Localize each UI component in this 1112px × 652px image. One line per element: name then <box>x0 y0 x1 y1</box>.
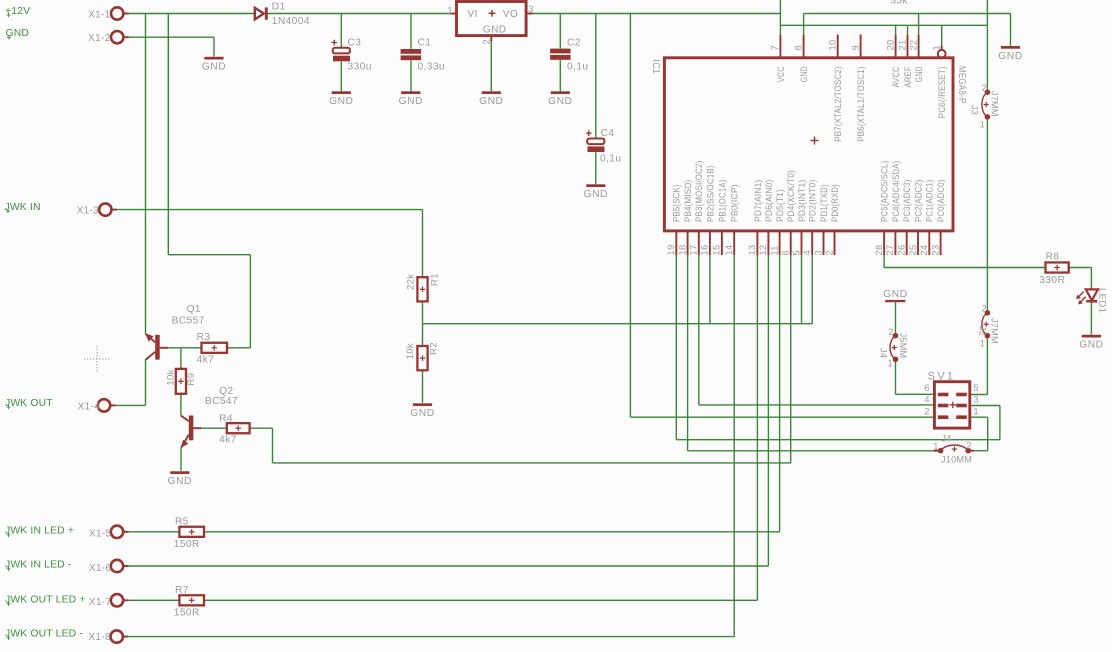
svg-text:PD0(RXD): PD0(RXD) <box>830 184 840 222</box>
svg-text:J10MM: J10MM <box>941 454 972 464</box>
svg-text:GND: GND <box>998 51 1022 62</box>
svg-text:SV1: SV1 <box>928 370 956 382</box>
svg-text:19: 19 <box>666 245 676 256</box>
svg-text:12: 12 <box>758 245 768 256</box>
svg-text:2: 2 <box>966 441 971 451</box>
svg-text:PB7(XTAL2/TOSC2): PB7(XTAL2/TOSC2) <box>833 66 843 142</box>
svg-text:2: 2 <box>982 303 987 313</box>
svg-text:PC0(ADC0): PC0(ADC0) <box>936 180 946 223</box>
svg-text:27: 27 <box>885 245 895 256</box>
svg-text:GND: GND <box>410 408 434 419</box>
svg-text:14: 14 <box>724 245 734 256</box>
svg-text:X1-5: X1-5 <box>89 529 111 540</box>
svg-text:GND: GND <box>883 289 907 300</box>
svg-text:2: 2 <box>982 83 987 93</box>
svg-text:C3: C3 <box>348 38 362 49</box>
svg-text:GND: GND <box>1079 340 1103 351</box>
svg-text:JWK IN LED -: JWK IN LED - <box>5 560 71 571</box>
svg-text:10k: 10k <box>405 343 416 359</box>
svg-text:X1-6: X1-6 <box>89 563 111 574</box>
svg-text:7: 7 <box>770 45 780 50</box>
svg-text:16: 16 <box>700 245 710 256</box>
svg-text:PD5(T1): PD5(T1) <box>775 189 785 222</box>
svg-text:22k: 22k <box>406 274 417 290</box>
svg-text:1: 1 <box>980 338 985 348</box>
svg-text:PB5(SCK): PB5(SCK) <box>672 184 682 222</box>
svg-text:J7MM: J7MM <box>989 318 999 344</box>
svg-text:PC5(ADC5/SCL): PC5(ADC5/SCL) <box>880 161 890 222</box>
svg-text:150R: 150R <box>174 539 200 550</box>
svg-text:PC1(ADC1): PC1(ADC1) <box>925 180 935 223</box>
svg-text:10: 10 <box>828 40 838 51</box>
svg-text:18: 18 <box>677 245 687 256</box>
svg-text:13: 13 <box>747 245 757 256</box>
svg-text:6: 6 <box>781 250 791 255</box>
svg-text:AVCC: AVCC <box>891 66 901 87</box>
svg-text:PD1(TXD): PD1(TXD) <box>819 184 829 222</box>
svg-text:X1-4: X1-4 <box>78 402 100 413</box>
svg-text:4k7: 4k7 <box>219 435 237 446</box>
svg-text:AREF: AREF <box>903 66 913 87</box>
svg-text:PD7(AIN1): PD7(AIN1) <box>753 180 763 223</box>
svg-text:VI: VI <box>468 9 478 20</box>
svg-text:J7MM: J7MM <box>989 91 999 117</box>
svg-text:PB6(XTAL1/TOSC1): PB6(XTAL1/TOSC1) <box>856 66 866 142</box>
svg-text:C2: C2 <box>567 38 581 49</box>
svg-text:22: 22 <box>908 40 918 51</box>
svg-text:0,33u: 0,33u <box>418 61 446 72</box>
svg-text:8: 8 <box>793 45 803 50</box>
svg-text:PD3(INT1): PD3(INT1) <box>797 180 807 223</box>
svg-text:BC547: BC547 <box>205 396 238 407</box>
svg-text:PD6(AIN0): PD6(AIN0) <box>764 180 774 223</box>
svg-text:JWK OUT: JWK OUT <box>5 398 53 409</box>
svg-text:1: 1 <box>933 442 938 452</box>
svg-text:1: 1 <box>932 45 942 50</box>
svg-text:GND: GND <box>584 189 608 200</box>
svg-text:1: 1 <box>447 6 452 16</box>
svg-text:5: 5 <box>973 383 979 394</box>
svg-text:R7: R7 <box>175 585 189 596</box>
svg-text:2: 2 <box>888 327 893 337</box>
svg-text:PB0(ICP): PB0(ICP) <box>730 184 740 222</box>
svg-text:1: 1 <box>888 359 893 369</box>
svg-text:J2: J2 <box>977 326 987 336</box>
svg-text:D1: D1 <box>272 2 286 13</box>
svg-text:X1-1: X1-1 <box>88 9 110 20</box>
svg-text:26: 26 <box>897 245 907 256</box>
svg-text:4k7: 4k7 <box>197 354 215 365</box>
svg-text:R1: R1 <box>430 273 441 286</box>
svg-text:R9: R9 <box>186 373 197 386</box>
svg-text:11: 11 <box>769 245 779 255</box>
svg-text:J4: J4 <box>879 348 889 358</box>
svg-text:R4: R4 <box>219 413 233 424</box>
svg-text:GND: GND <box>479 96 503 107</box>
svg-text:R2: R2 <box>429 342 440 355</box>
svg-text:3: 3 <box>813 250 823 255</box>
svg-text:PD2(INT0): PD2(INT0) <box>808 180 818 223</box>
svg-text:3: 3 <box>973 394 979 405</box>
svg-text:23: 23 <box>930 245 940 256</box>
svg-text:GND: GND <box>914 66 924 82</box>
svg-text:VCC: VCC <box>776 66 786 82</box>
svg-text:GND: GND <box>399 96 423 107</box>
svg-text:GND: GND <box>168 476 192 487</box>
svg-text:R8: R8 <box>1046 252 1060 263</box>
svg-text:1N4004: 1N4004 <box>272 16 310 27</box>
svg-text:1: 1 <box>973 406 979 417</box>
svg-text:R3: R3 <box>197 332 211 343</box>
svg-text:BC557: BC557 <box>172 316 205 327</box>
svg-text:J5MM: J5MM <box>898 333 908 359</box>
svg-text:PC4(ADC4/SDA): PC4(ADC4/SDA) <box>891 161 901 222</box>
svg-text:330u: 330u <box>348 61 372 72</box>
svg-text:21: 21 <box>897 40 907 51</box>
svg-text:25: 25 <box>908 245 918 256</box>
svg-text:2: 2 <box>924 406 930 417</box>
svg-text:1: 1 <box>980 120 985 130</box>
svg-text:X1-8: X1-8 <box>88 632 110 643</box>
svg-text:X1-3: X1-3 <box>77 206 99 217</box>
svg-text:17: 17 <box>689 245 699 256</box>
svg-text:2: 2 <box>481 39 491 44</box>
svg-text:PB4(MISO): PB4(MISO) <box>683 180 693 223</box>
svg-text:5: 5 <box>791 250 801 255</box>
svg-text:JWK OUT LED -: JWK OUT LED - <box>5 629 83 640</box>
svg-text:PC3(ADC3): PC3(ADC3) <box>902 180 912 223</box>
svg-text:LED1: LED1 <box>1097 288 1108 313</box>
svg-text:GND: GND <box>799 66 809 82</box>
svg-text:33k: 33k <box>891 0 909 7</box>
svg-text:C1: C1 <box>418 38 432 49</box>
svg-text:20: 20 <box>885 40 895 51</box>
svg-text:0,1u: 0,1u <box>567 61 588 72</box>
svg-text:IC1: IC1 <box>650 59 661 74</box>
svg-text:R5: R5 <box>175 517 189 528</box>
svg-text:PB3(MOSI/OC2): PB3(MOSI/OC2) <box>694 161 704 222</box>
svg-text:PD4(XCK/T0): PD4(XCK/T0) <box>786 170 796 222</box>
svg-text:PB2(SS/OC1B): PB2(SS/OC1B) <box>705 165 715 222</box>
svg-text:X1-2: X1-2 <box>88 33 110 44</box>
svg-text:VO: VO <box>503 9 518 20</box>
svg-text:15: 15 <box>712 245 722 256</box>
svg-text:28: 28 <box>874 245 884 256</box>
svg-text:PC6(/RESET): PC6(/RESET) <box>937 66 947 118</box>
svg-text:GND: GND <box>483 25 506 36</box>
svg-text:X1-7: X1-7 <box>89 597 111 608</box>
svg-text:10k: 10k <box>166 369 177 385</box>
svg-text:9: 9 <box>850 45 860 50</box>
svg-text:4: 4 <box>802 250 812 255</box>
svg-text:4: 4 <box>924 394 930 405</box>
svg-text:2: 2 <box>824 250 834 255</box>
svg-text:J3: J3 <box>970 105 980 115</box>
svg-text:JWK OUT LED +: JWK OUT LED + <box>5 595 86 606</box>
svg-text:GND: GND <box>202 62 226 73</box>
svg-text:GND: GND <box>548 96 572 107</box>
svg-text:3: 3 <box>528 4 533 14</box>
svg-text:PB1(OC1A): PB1(OC1A) <box>717 180 727 223</box>
svg-text:150R: 150R <box>174 608 200 619</box>
svg-text:24: 24 <box>919 245 929 256</box>
svg-text:330R: 330R <box>1039 275 1065 286</box>
svg-text:JWK IN LED +: JWK IN LED + <box>5 526 74 537</box>
svg-text:PC2(ADC2): PC2(ADC2) <box>913 180 923 223</box>
svg-text:GND: GND <box>329 96 353 107</box>
svg-text:Q1: Q1 <box>187 304 201 315</box>
svg-text:MEGA8-P: MEGA8-P <box>956 66 967 104</box>
svg-text:C4: C4 <box>601 128 615 139</box>
svg-text:6: 6 <box>924 383 930 394</box>
svg-text:0,1u: 0,1u <box>600 153 621 164</box>
svg-text:J4: J4 <box>941 433 951 443</box>
